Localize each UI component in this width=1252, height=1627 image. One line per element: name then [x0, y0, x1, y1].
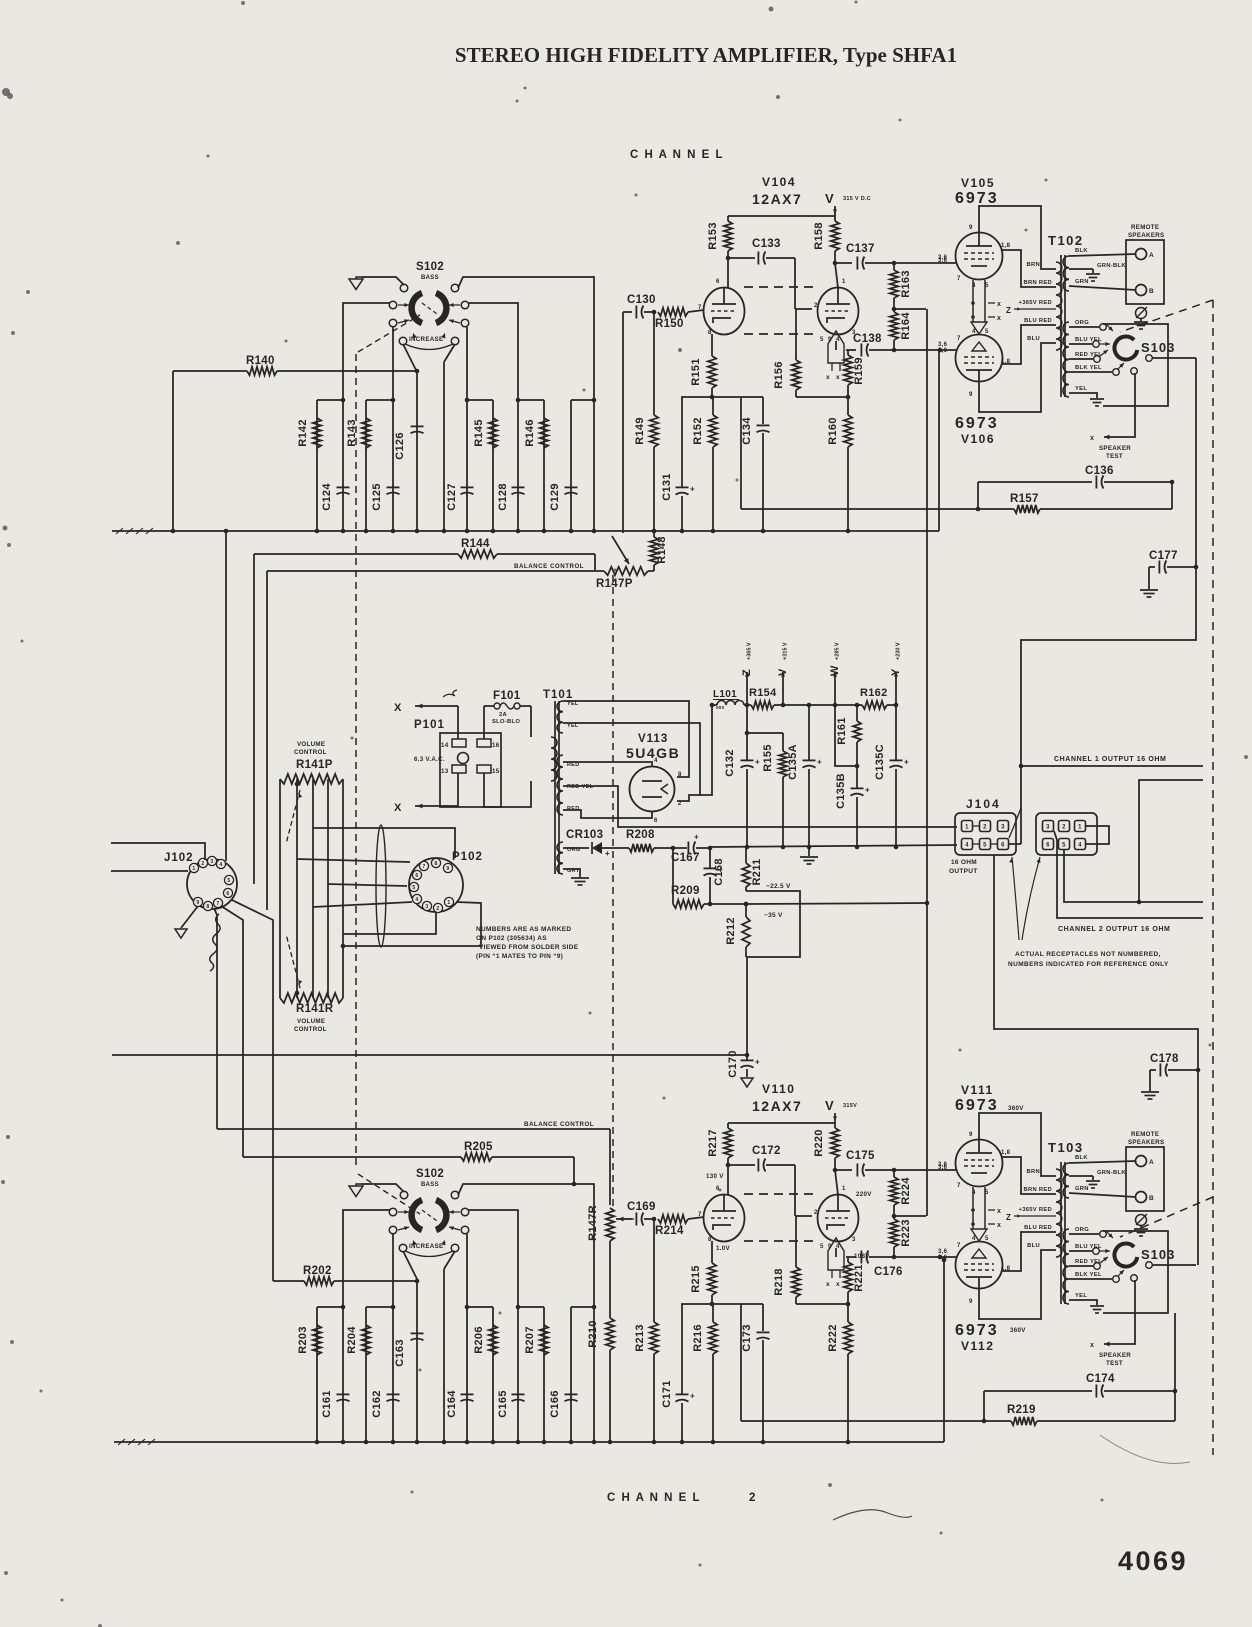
wire -22.5 loop	[746, 891, 800, 957]
svg-text:V110: V110	[762, 1082, 795, 1096]
switch S103 arrows ch1	[1106, 324, 1113, 331]
wire ch2 output line	[1064, 850, 1203, 902]
capacitor C162 ch2	[387, 1393, 400, 1395]
terminal B ch1	[1136, 285, 1147, 296]
wire J104B jumper 1-4	[1086, 826, 1109, 844]
svg-text:R214: R214	[655, 1225, 684, 1237]
svg-text:R209: R209	[671, 885, 700, 897]
svg-text:+285 V: +285 V	[835, 642, 841, 660]
connector J104 B pin4	[1075, 839, 1086, 850]
wire column x571 ch2	[570, 1307, 572, 1442]
svg-text:12AX7: 12AX7	[752, 191, 802, 207]
tube V104 heater leads	[828, 331, 844, 363]
svg-text:C161: C161	[321, 1390, 333, 1418]
svg-text:1: 1	[447, 900, 450, 906]
svg-text:T103: T103	[1048, 1140, 1084, 1155]
svg-text:C174: C174	[1086, 1373, 1115, 1385]
svg-text:1: 1	[192, 866, 195, 872]
svg-text:S103: S103	[1141, 340, 1175, 355]
svg-text:−35 V: −35 V	[764, 912, 783, 919]
svg-text:1: 1	[842, 279, 846, 285]
svg-text:+: +	[865, 786, 870, 795]
svg-text:R224: R224	[900, 1177, 912, 1205]
wire GRN-BLK tap ch1	[1069, 268, 1093, 270]
svg-text:C135B: C135B	[835, 773, 847, 809]
resistor R221 ch2	[847, 1257, 849, 1262]
wire column x393 ch2	[392, 1307, 394, 1442]
svg-text:9: 9	[969, 1299, 973, 1305]
wire input line 2	[111, 870, 188, 872]
svg-text:R144: R144	[461, 538, 490, 550]
svg-text:5: 5	[1062, 843, 1066, 849]
wiper R141P	[286, 790, 300, 844]
svg-text:X: X	[394, 802, 402, 814]
wire YEL tap ch1	[1069, 393, 1097, 398]
resistor R142 ch1	[313, 418, 321, 448]
wire balance line ch2	[217, 1128, 610, 1130]
svg-text:B: B	[1149, 1195, 1154, 1202]
svg-text:9: 9	[828, 1244, 832, 1250]
wire column x417 ch2	[416, 1279, 418, 1442]
resistor R207 ch2	[540, 1325, 548, 1355]
svg-text:6: 6	[1001, 843, 1005, 849]
wire column x544 ch2	[543, 1307, 545, 1442]
switch S103 contacts ch1	[1131, 368, 1138, 375]
wiper R147R arrow	[618, 1218, 634, 1220]
resistor R214 ch2	[658, 1215, 688, 1223]
node V +315V	[782, 672, 784, 705]
svg-text:x: x	[997, 1208, 1001, 1215]
svg-text:R218: R218	[773, 1268, 785, 1296]
wire J102 ground	[181, 906, 198, 928]
resistor R219	[740, 1304, 742, 1421]
wire J104A jumpers	[973, 825, 979, 827]
svg-text:C134: C134	[741, 417, 753, 445]
wire plate lead right ch2	[835, 1170, 838, 1195]
svg-text:6.3 V.A.C.: 6.3 V.A.C.	[414, 756, 445, 763]
wire RED-YEL tap ch2	[1069, 1265, 1093, 1267]
wire input line 1	[111, 843, 205, 860]
svg-text:+: +	[694, 833, 699, 842]
wire column x317 ch1	[316, 400, 318, 531]
resistor R144	[254, 553, 458, 555]
capacitor C137 ch1	[835, 262, 852, 264]
svg-text:4: 4	[654, 758, 658, 764]
wire BLK-YEL tap ch1	[1069, 371, 1112, 373]
capacitor C132	[746, 705, 748, 733]
wire RED-YEL to J104 line	[563, 786, 957, 827]
svg-text:R153: R153	[707, 222, 719, 250]
svg-text:S102: S102	[416, 1168, 444, 1180]
resistor R215 ch2	[711, 1241, 713, 1263]
resistor R162	[862, 701, 887, 709]
connector J104 body A	[955, 813, 1016, 855]
svg-text:SPEAKERS: SPEAKERS	[1128, 1139, 1164, 1146]
wire S103 frame ch2	[1103, 1231, 1168, 1313]
wire column x444 ch1	[443, 362, 445, 531]
node W +285V	[834, 672, 836, 705]
svg-text:INCREASE: INCREASE	[409, 1243, 443, 1250]
wire column x366 ch1	[365, 400, 367, 531]
wire pin13 to X	[457, 773, 459, 806]
plug P101 pin 14	[452, 739, 466, 747]
tube envelope dashed links	[744, 286, 818, 288]
svg-text:V113: V113	[638, 733, 668, 745]
svg-text:V: V	[825, 1098, 834, 1113]
resistor R158 ch1	[834, 216, 836, 221]
capacitor C129 ch1	[565, 486, 578, 488]
svg-text:5: 5	[227, 878, 230, 884]
tube V113 electrodes	[642, 780, 662, 782]
wire C169 to wiper	[616, 1218, 623, 1220]
wire YEL1 to pin8	[563, 701, 689, 777]
svg-text:CHANNEL 1 OUTPUT 16 OHM: CHANNEL 1 OUTPUT 16 OHM	[1054, 756, 1166, 763]
svg-text:1: 1	[1078, 825, 1082, 831]
beam electrode pair ch1	[972, 280, 974, 322]
svg-text:F101: F101	[493, 690, 521, 702]
tube V104 right triode electrodes	[826, 303, 850, 305]
svg-text:V104: V104	[762, 175, 796, 189]
svg-text:7: 7	[957, 336, 961, 342]
plug P101 center	[458, 753, 469, 764]
wire S103 out ch2	[1152, 1264, 1196, 1266]
wire column x544 ch1	[543, 400, 545, 531]
capacitor C124 ch1	[337, 486, 350, 488]
svg-text:P101: P101	[414, 719, 445, 731]
svg-text:R150: R150	[655, 318, 684, 330]
svg-text:YEL: YEL	[1075, 1293, 1087, 1299]
fuse F101	[494, 703, 500, 709]
resistor R153 ch1	[727, 216, 729, 221]
wire cathode heater node ch2	[835, 1248, 837, 1257]
svg-text:R140: R140	[246, 355, 275, 367]
svg-text:3,6: 3,6	[938, 1165, 948, 1171]
svg-text:5: 5	[820, 1244, 824, 1250]
wire W drop	[835, 705, 857, 766]
connector J104 B pin3	[1043, 821, 1054, 832]
wire pair tops ch2	[317, 1306, 343, 1308]
node Z +365V	[746, 672, 748, 705]
resistor R218 ch2	[795, 1216, 797, 1267]
svg-text:R222: R222	[827, 1324, 839, 1352]
svg-text:Z: Z	[741, 669, 753, 676]
resistor R163 ch1	[893, 263, 895, 270]
plug P101 box	[440, 733, 501, 807]
potentiometer R141R	[280, 993, 343, 1003]
capacitor C134 ch1	[762, 397, 764, 424]
wire YEL2 to pin2	[563, 723, 700, 801]
plug P101 pin 16	[477, 739, 491, 747]
svg-text:8: 8	[206, 904, 209, 910]
svg-text:5: 5	[820, 337, 824, 343]
svg-text:R141P: R141P	[296, 759, 333, 771]
capacitor C173 ch2	[762, 1304, 764, 1331]
wire BLU-YEL tap ch1	[1069, 343, 1092, 345]
capacitor C136	[978, 481, 1092, 483]
wire dashed gang bass	[355, 354, 357, 1170]
wire bias tap ch1	[894, 308, 926, 310]
svg-text:P102: P102	[452, 851, 483, 863]
svg-text:C175: C175	[846, 1150, 875, 1162]
speaker test arrow ch1	[1104, 373, 1135, 437]
wire S103 frame ch1	[1103, 324, 1168, 406]
svg-text:B: B	[1149, 288, 1154, 295]
svg-text:C165: C165	[497, 1390, 509, 1418]
svg-text:R202: R202	[303, 1265, 332, 1277]
connector J104 A pin2	[980, 821, 991, 832]
resistor R210	[606, 1318, 614, 1350]
resistor R148	[653, 531, 655, 537]
svg-text:8: 8	[434, 861, 437, 867]
capacitor C168	[709, 848, 711, 868]
svg-text:R147R: R147R	[587, 1205, 599, 1241]
svg-text:RED YEL: RED YEL	[1075, 352, 1102, 358]
capacitor C165 ch2	[512, 1393, 525, 1395]
svg-text:RED YEL: RED YEL	[1075, 1259, 1102, 1265]
svg-text:15: 15	[492, 768, 500, 775]
wiper R141R	[286, 934, 300, 988]
resistor R146 ch1	[540, 418, 548, 448]
resistor R149 ch1	[653, 312, 655, 415]
svg-text:R162: R162	[860, 687, 888, 699]
wire V105 plate to BRN ch2	[979, 1113, 1056, 1176]
svg-text:3: 3	[1046, 825, 1050, 831]
resistor R164 ch1	[893, 309, 895, 312]
svg-text:360V: 360V	[1008, 1105, 1024, 1112]
svg-text:R161: R161	[836, 717, 848, 745]
svg-text:+230 V: +230 V	[896, 642, 902, 660]
wire gnd to S102 contact ch2	[361, 1184, 404, 1192]
svg-text:BRN RED: BRN RED	[1023, 1187, 1052, 1193]
wire BLK-YEL tap ch2	[1069, 1278, 1112, 1280]
svg-text:V112: V112	[961, 1339, 994, 1353]
svg-text:2A: 2A	[499, 712, 508, 718]
svg-text:3: 3	[210, 859, 213, 865]
svg-text:SPEAKER: SPEAKER	[1099, 1352, 1131, 1359]
transformer T101 secondary mid	[557, 755, 563, 815]
capacitor C130 ch1	[623, 311, 632, 313]
wire S103 to C177 node	[1021, 358, 1196, 766]
wire column x493 ch1	[492, 400, 494, 531]
svg-text:+: +	[904, 758, 909, 767]
wire bus2 corner up	[943, 1260, 945, 1442]
cable shield	[376, 825, 386, 947]
svg-text:4: 4	[972, 1236, 976, 1242]
wire V106 screen 1,8 to BLU-RED ch1	[1001, 325, 1056, 364]
wire GRN tap ch1	[1069, 286, 1136, 290]
switch S103 rotor ch1	[1114, 337, 1137, 360]
svg-text:4: 4	[965, 843, 969, 849]
remote speakers box ch1	[1126, 240, 1164, 304]
svg-text:ORG: ORG	[1075, 320, 1089, 326]
svg-text:6973: 6973	[955, 1097, 999, 1114]
svg-text:C133: C133	[752, 238, 781, 250]
wire C178 to ch2 S103	[1197, 1070, 1199, 1265]
svg-text:GRN-BLK: GRN-BLK	[1097, 263, 1126, 269]
resistor R204 ch2	[362, 1325, 370, 1355]
wire volume col b	[312, 779, 314, 998]
ground C178	[1149, 1070, 1151, 1091]
svg-text:SPEAKER: SPEAKER	[1099, 445, 1131, 452]
wire V106 plate to BLU ch1	[979, 343, 1056, 412]
svg-text:R213: R213	[634, 1324, 646, 1352]
wire R144 line	[253, 554, 255, 884]
resistor R154	[751, 701, 774, 709]
svg-text:R164: R164	[900, 312, 912, 340]
svg-text:7: 7	[957, 1183, 961, 1189]
svg-text:+365V RED: +365V RED	[1019, 300, 1052, 306]
svg-text:C171: C171	[661, 1380, 673, 1408]
tube V111 envelope ch2	[956, 1140, 1003, 1187]
tube V104 right triode envelope	[818, 288, 859, 335]
wire BLU-YEL tap ch2	[1069, 1250, 1092, 1252]
svg-text:9: 9	[969, 1132, 973, 1138]
svg-text:SPEAKERS: SPEAKERS	[1128, 232, 1164, 239]
tube V112 envelope ch2	[956, 1242, 1003, 1289]
transformer T101 core	[554, 701, 556, 874]
svg-text:x: x	[826, 1281, 830, 1288]
wire B+ rail segs	[710, 703, 715, 708]
wire vol to P102 4	[313, 902, 412, 907]
svg-text:T102: T102	[1048, 233, 1084, 248]
svg-text:6: 6	[1046, 843, 1050, 849]
svg-text:R220: R220	[813, 1129, 825, 1157]
terminal B ch2	[1136, 1192, 1147, 1203]
inductor L101	[717, 701, 744, 706]
svg-text:x: x	[1090, 1342, 1094, 1349]
wire bias tap ch2	[894, 1215, 926, 1217]
ground bus channel 2	[114, 1441, 944, 1443]
svg-text:9: 9	[969, 225, 973, 231]
svg-text:C128: C128	[497, 483, 509, 511]
svg-text:C173: C173	[741, 1324, 753, 1352]
svg-text:C178: C178	[1150, 1053, 1179, 1065]
socket J102	[187, 859, 237, 909]
svg-text:BLK YEL: BLK YEL	[1075, 1272, 1102, 1278]
svg-text:3,6: 3,6	[938, 1255, 948, 1261]
terminal A ch1	[1136, 249, 1147, 260]
wire vol to P102 5	[343, 913, 436, 934]
svg-text:13: 13	[441, 768, 449, 775]
svg-text:R151: R151	[690, 358, 702, 386]
plug P101 pin 15	[477, 765, 491, 773]
capacitor C125 ch1	[387, 486, 400, 488]
resistor R145 ch1	[489, 418, 497, 448]
svg-text:YEL: YEL	[1075, 386, 1087, 392]
wire GRN tap ch2	[1069, 1193, 1136, 1197]
wire column x518 ch2	[517, 1307, 519, 1442]
svg-text:4: 4	[972, 283, 976, 289]
resistor R161	[856, 705, 858, 721]
wire column x594 ch1	[593, 400, 595, 531]
svg-text:Z: Z	[1006, 306, 1011, 315]
wire cathode node line ch1	[681, 396, 763, 398]
svg-text:BASS: BASS	[421, 275, 439, 281]
svg-text:16: 16	[492, 742, 500, 749]
svg-text:RED: RED	[567, 762, 580, 768]
wire column x594 ch2	[593, 1307, 595, 1442]
svg-text:R147P: R147P	[596, 578, 633, 590]
resistor R208	[602, 847, 629, 849]
resistor R216 ch2	[712, 1304, 714, 1322]
svg-text:CHANNEL 2 OUTPUT 16 OHM: CHANNEL 2 OUTPUT 16 OHM	[1058, 926, 1170, 933]
connector J104 A pin3	[998, 821, 1009, 832]
wire J102 pin4 to bus1	[225, 531, 227, 861]
connector J104 B pin6	[1043, 839, 1054, 850]
svg-text:7: 7	[957, 276, 961, 282]
beam electrode pair ch2	[972, 1187, 974, 1229]
svg-text:C135C: C135C	[874, 744, 886, 780]
svg-text:R211: R211	[751, 859, 763, 886]
svg-text:+315 V: +315 V	[783, 642, 789, 660]
svg-text:V111: V111	[961, 1083, 994, 1097]
svg-text:C125: C125	[371, 483, 383, 511]
svg-text:S103: S103	[1141, 1247, 1175, 1262]
wire column x444 ch2	[443, 1269, 445, 1442]
wire V105 plate to BRN ch1	[979, 206, 1056, 269]
svg-text:GRN: GRN	[1075, 1186, 1089, 1192]
svg-text:A: A	[1149, 1159, 1154, 1166]
svg-text:12AX7: 12AX7	[752, 1098, 802, 1114]
tube V104 left triode electrodes	[712, 303, 736, 305]
wire plate supply rail ch2	[728, 1122, 835, 1124]
connector J104 B pin2	[1059, 821, 1070, 832]
wire vol to P102 3	[328, 884, 407, 886]
svg-text:5: 5	[983, 843, 987, 849]
svg-text:C129: C129	[549, 483, 561, 511]
svg-text:R145: R145	[473, 419, 485, 447]
wiper R147P	[622, 312, 624, 533]
wire risers to switch ch2	[343, 1210, 390, 1307]
potentiometer R141P	[280, 774, 343, 784]
svg-text:R219: R219	[1007, 1404, 1036, 1416]
wire X arrow lower	[415, 805, 458, 807]
capacitor C170	[746, 1055, 748, 1060]
wire plate lead left ch1	[727, 258, 729, 288]
connector J104 A pin1	[962, 821, 973, 832]
transformer T102 secondary lower ch1	[1063, 322, 1069, 397]
tube V113 envelope	[630, 767, 675, 812]
svg-text:GRN-BLK: GRN-BLK	[1097, 1170, 1126, 1176]
svg-text:BLK YEL: BLK YEL	[1075, 365, 1102, 371]
svg-text:3: 3	[852, 1237, 856, 1243]
dashed rotor link S102 ch1	[358, 315, 420, 352]
leader curves	[1012, 857, 1019, 940]
speaker test arrow ch2	[1104, 1280, 1135, 1344]
connector J104 B pin1	[1075, 821, 1086, 832]
svg-text:BLU RED: BLU RED	[1024, 1225, 1052, 1231]
wire dashed gang balance	[612, 575, 614, 1208]
svg-text:BRN: BRN	[1027, 1169, 1040, 1175]
svg-text:C136: C136	[1085, 465, 1114, 477]
chassis ground ch2	[1136, 1215, 1147, 1226]
wire ch2 upper return	[1139, 780, 1203, 902]
connector J104 body B	[1036, 813, 1097, 855]
svg-text:C138: C138	[853, 333, 882, 345]
svg-text:9: 9	[969, 392, 973, 398]
tube envelope dashed links	[744, 1193, 818, 1195]
wire cathode node line ch2	[681, 1303, 763, 1305]
svg-text:ORG: ORG	[1075, 1227, 1089, 1233]
wire R212 to mid bus	[746, 957, 748, 1055]
wire BLK tap ch2	[1069, 1161, 1136, 1163]
svg-text:220V: 220V	[856, 1191, 872, 1198]
wire column x343 ch2	[342, 1307, 344, 1442]
wire fuse to T101	[520, 705, 531, 707]
svg-text:REMOTE: REMOTE	[1131, 224, 1159, 231]
capacitor C127 ch1	[461, 486, 474, 488]
svg-text:R142: R142	[297, 419, 309, 447]
